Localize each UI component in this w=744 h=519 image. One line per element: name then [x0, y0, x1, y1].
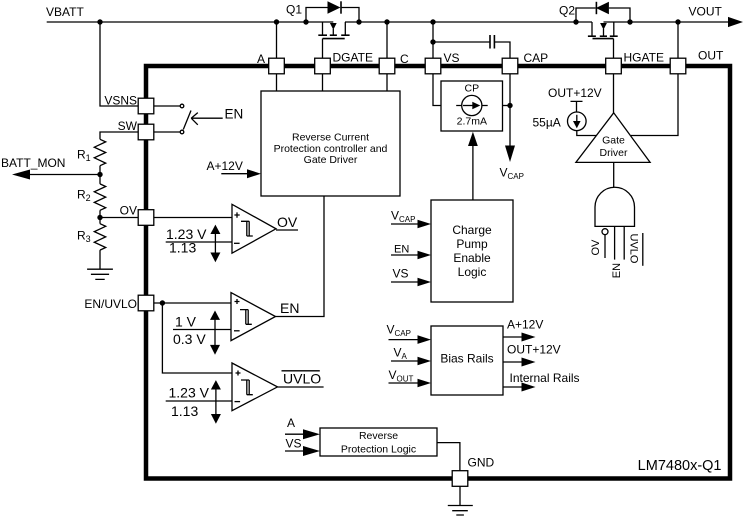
wire: top rail middle segment — [345, 21, 592, 23]
svg-text:A+12V: A+12V — [207, 159, 243, 173]
svg-text:VCAP: VCAP — [387, 323, 411, 339]
svg-text:A: A — [287, 416, 295, 430]
pin HGATE — [606, 58, 622, 74]
svg-text:1.23 V: 1.23 V — [169, 385, 210, 401]
wire: VA into Bias Rails — [391, 360, 419, 362]
svg-text:1.13: 1.13 — [169, 240, 196, 256]
pin GND — [452, 471, 468, 487]
pin A — [269, 58, 285, 74]
wire: UVLO comparator minus input — [166, 400, 232, 402]
svg-text:Driver: Driver — [600, 147, 629, 159]
wire: top rail right segment to VOUT — [604, 21, 730, 23]
svg-text:Logic: Logic — [458, 265, 487, 279]
wire: A+12V out of Bias Rails — [503, 336, 523, 338]
resistor R1 — [94, 139, 105, 165]
wire: EN comparator minus input — [173, 329, 231, 331]
current source 55uA circle — [568, 112, 587, 131]
wire: gate driver to AND gate — [613, 162, 615, 187]
svg-text:A+12V: A+12V — [507, 318, 543, 332]
transistor Q2 drain contact bar — [610, 35, 618, 37]
transistor Q1 source contact bar — [318, 34, 327, 36]
wire: C pin into RCP block — [386, 74, 388, 92]
wire: capacitor branch from VS — [433, 41, 490, 43]
wire: OV input to AND gate — [604, 235, 606, 258]
transistor Q1 drain stub — [344, 22, 346, 35]
comparator EN minus sign — [234, 330, 240, 332]
svg-text:55µA: 55µA — [533, 115, 561, 129]
transistor Q1 body diode loop — [306, 8, 359, 23]
wire: HGATE pin to gate driver — [613, 74, 615, 113]
wire: VS pin branch from rail — [432, 22, 434, 59]
wire: capacitor to CAP pin — [494, 42, 510, 59]
wire: CAP pin down to VCAP arrow — [509, 74, 511, 147]
wire: VOUT into Bias Rails — [389, 382, 419, 384]
svg-text:VS: VS — [393, 267, 409, 281]
junction: EN/UVLO node — [160, 300, 165, 305]
svg-text:VS: VS — [286, 437, 302, 451]
wire: charge pump enable to CP block arrow — [472, 145, 474, 200]
threshold up arrow OV — [214, 234, 216, 243]
resistor R3 — [94, 224, 105, 250]
transistor Q1 gate bar — [323, 38, 345, 40]
transistor Q2 drain stub — [613, 22, 615, 36]
svg-text:Reverse: Reverse — [359, 430, 398, 442]
wire: Q2 gate lead to HGATE — [613, 39, 615, 59]
transistor Q2 source stub — [591, 22, 593, 36]
wire: R1 to R2 — [99, 166, 101, 184]
wire: Internal Rails out of Bias Rails — [503, 386, 523, 388]
current source CP circle — [462, 95, 482, 115]
transistor Q2 middle contact bar — [600, 35, 607, 37]
wire: VSNS pin to switch — [154, 105, 181, 107]
comparator UVLO minus sign — [235, 401, 241, 403]
svg-text:Internal Rails: Internal Rails — [510, 371, 580, 385]
ground symbol — [448, 506, 473, 516]
svg-text:2.7mA: 2.7mA — [457, 115, 487, 127]
transistor Q2 body diode cathode bar — [595, 2, 597, 14]
VCAP down arrowhead — [505, 146, 515, 163]
comparator OV minus sign — [234, 242, 240, 244]
pin EN/UVLO — [138, 295, 154, 311]
junction: BATT_MON tap — [97, 172, 102, 177]
pin OUT — [670, 58, 686, 74]
svg-text:EN: EN — [394, 244, 409, 256]
svg-text:EN: EN — [280, 300, 299, 316]
wire: EN input to AND gate — [614, 226, 616, 259]
wire: DGATE pin into RCP block — [322, 74, 324, 92]
power rail T-bar OUT+12V — [571, 101, 583, 112]
IC boundary box LM7480x-Q1 — [146, 66, 730, 479]
VOUT arrowhead — [728, 17, 743, 27]
svg-text:EN/UVLO: EN/UVLO — [84, 297, 137, 311]
svg-text:1 V: 1 V — [175, 314, 197, 330]
junction: OV tap — [97, 215, 102, 220]
wire: EN/UVLO pin to EN comparator — [154, 302, 232, 304]
transistor Q1 drain contact bar — [341, 34, 349, 36]
svg-text:VBATT: VBATT — [46, 5, 84, 19]
comparator UVLO triangle — [232, 363, 278, 411]
transistor Q1 middle contact bar — [330, 34, 337, 36]
transistor Q2 body diode triangle — [596, 2, 609, 14]
svg-text:CAP: CAP — [524, 51, 549, 65]
switch blade — [183, 111, 191, 130]
wire: A into RPL — [285, 433, 304, 435]
EN control open arrow — [191, 113, 223, 125]
svg-text:DGATE: DGATE — [333, 51, 373, 65]
svg-text:VCAP: VCAP — [391, 209, 415, 225]
wire: BATT_MON tap — [29, 174, 100, 176]
svg-text:OV: OV — [120, 204, 137, 218]
svg-text:LM7480x-Q1: LM7480x-Q1 — [638, 458, 722, 474]
AND gate OV inverted input bubble — [602, 229, 608, 235]
AND gate — [595, 187, 635, 226]
comparator EN triangle — [231, 293, 276, 341]
svg-text:CP: CP — [465, 82, 480, 94]
wire: OUT pin branch from rail — [677, 22, 679, 59]
wire: CP block to CAP line — [503, 105, 511, 107]
svg-text:A: A — [257, 52, 265, 66]
svg-text:VS: VS — [444, 51, 460, 65]
wire: VS into RPL — [285, 450, 304, 452]
threshold down arrow EN — [214, 330, 216, 346]
block: Reverse Protection Logic — [320, 428, 437, 456]
threshold up arrow UVLO — [215, 389, 217, 401]
wire: OV comparator minus input — [166, 241, 232, 243]
svg-text:Bias Rails: Bias Rails — [440, 351, 493, 365]
transistor Q2 source contact bar — [588, 35, 596, 37]
resistor R2 — [94, 184, 105, 210]
pin SW — [138, 124, 154, 140]
svg-text:Q1: Q1 — [286, 3, 302, 17]
svg-text:Charge: Charge — [452, 223, 492, 237]
switch terminal circle lower — [180, 130, 184, 134]
wire: OUT+12V out of Bias Rails — [503, 361, 523, 363]
svg-text:R3: R3 — [77, 229, 91, 245]
comparator EN hysteresis glyph — [240, 310, 252, 325]
pin OV — [138, 210, 154, 226]
svg-text:VSNS: VSNS — [104, 94, 137, 108]
transistor Q1 body arrow — [330, 23, 337, 30]
wire: OUT pin feedback to gate driver — [631, 74, 678, 136]
svg-text:BATT_MON: BATT_MON — [1, 156, 65, 170]
svg-text:Gate: Gate — [602, 135, 625, 147]
threshold down arrow OV — [214, 242, 216, 253]
svg-text:0.3 V: 0.3 V — [173, 331, 206, 347]
svg-text:C: C — [400, 52, 409, 66]
capacitor VS-CAP right plate — [493, 35, 495, 49]
svg-text:UVLO: UVLO — [627, 234, 639, 264]
transistor Q1 body diode cathode bar — [340, 1, 342, 13]
svg-text:OUT: OUT — [698, 49, 724, 63]
svg-text:OUT+12V: OUT+12V — [507, 343, 561, 357]
wire: VSNS branch from rail — [100, 22, 139, 106]
svg-text:VA: VA — [394, 346, 408, 362]
wire: EN comparator output to RCP block — [276, 196, 325, 317]
comparator UVLO plus sign — [236, 371, 241, 376]
wire: VCAP into Bias Rails — [389, 339, 419, 341]
wire: VS pin to CP block — [433, 74, 441, 106]
wire: OV pin to comparator — [100, 217, 139, 219]
pin C — [379, 58, 395, 74]
wire: R3 to ground — [99, 250, 101, 269]
svg-text:Protection Logic: Protection Logic — [341, 444, 416, 456]
ground under R3 — [87, 269, 113, 279]
wire: A pin into RCP block — [276, 74, 278, 92]
svg-text:R1: R1 — [77, 148, 91, 164]
wire: VCAP into CPEL — [391, 223, 419, 225]
wire: VS into CPEL — [391, 281, 419, 283]
comparator OV plus sign — [234, 212, 239, 217]
wire: R2 to R3 — [99, 210, 101, 223]
transistor Q1 body diode triangle — [328, 1, 341, 13]
junction dots on VBATT rail — [97, 19, 102, 24]
svg-text:Pump: Pump — [456, 237, 488, 251]
wire: EN into CPEL — [391, 254, 419, 256]
wire: RPL to GND pin — [437, 443, 460, 471]
pin VSNS — [138, 98, 154, 114]
svg-text:R2: R2 — [77, 188, 91, 204]
svg-text:Q2: Q2 — [559, 4, 575, 18]
wire: SW pin to resistor divider — [100, 132, 139, 139]
comparator OV hysteresis glyph — [241, 221, 253, 236]
svg-text:OV: OV — [590, 239, 602, 256]
wire: 55uA source into gate driver — [577, 131, 597, 136]
block: Charge Pump Enable Logic — [431, 200, 513, 302]
capacitor VS-CAP left plate — [489, 35, 491, 49]
pin CAP — [502, 58, 518, 74]
wire: C pin branch from rail — [386, 22, 388, 59]
svg-text:UVLO: UVLO — [283, 371, 321, 387]
transistor Q2 body arrow — [600, 23, 607, 30]
switch terminal circle upper — [180, 104, 184, 108]
transistor Q1 source stub — [322, 22, 324, 35]
wire: UVLO input to AND gate — [623, 226, 625, 259]
transistor Q2 body diode loop — [576, 8, 630, 22]
threshold down arrow UVLO — [215, 401, 217, 415]
svg-text:1.13: 1.13 — [171, 403, 198, 419]
svg-text:OV: OV — [277, 214, 298, 230]
svg-text:HGATE: HGATE — [624, 51, 664, 65]
comparator OV triangle — [232, 204, 276, 253]
svg-text:VOUT: VOUT — [389, 368, 414, 384]
svg-text:GND: GND — [468, 456, 495, 470]
svg-text:OUT+12V: OUT+12V — [548, 86, 602, 100]
BATT_MON arrowhead — [12, 170, 30, 180]
block: Bias Rails — [431, 326, 503, 395]
svg-text:EN: EN — [611, 263, 623, 278]
pin DGATE — [315, 58, 331, 74]
junction: VS capacitor tap — [430, 39, 435, 44]
wire: VBATT top rail left segment — [47, 21, 334, 23]
svg-text:Gate Driver: Gate Driver — [304, 154, 358, 166]
svg-text:Protection controller and: Protection controller and — [274, 143, 388, 155]
threshold up arrow EN — [214, 319, 216, 329]
wire: SW pin to switch — [154, 131, 181, 133]
comparator UVLO hysteresis glyph — [241, 380, 253, 395]
block: Reverse Current Protection controller and Gate Driver — [261, 91, 400, 196]
wire: GND pin to ground — [459, 486, 461, 506]
wire: Q1 gate lead to DGATE — [322, 39, 324, 59]
wire: EN/UVLO node to UVLO comparator — [162, 303, 232, 373]
pin VS — [425, 58, 441, 74]
transistor Q2 gate bar — [593, 38, 614, 40]
wire: UVLO comparator output — [278, 386, 324, 388]
svg-text:Enable: Enable — [453, 251, 491, 265]
comparator EN plus sign — [235, 299, 240, 304]
wire: A+12V into RCP block — [221, 173, 248, 175]
wire: A pin branch from rail — [276, 22, 278, 59]
svg-text:Reverse Current: Reverse Current — [292, 132, 369, 144]
svg-text:VCAP: VCAP — [500, 166, 524, 182]
wire: OV comparator output — [276, 229, 298, 231]
svg-text:EN: EN — [225, 107, 244, 122]
svg-text:VOUT: VOUT — [689, 5, 723, 19]
gate driver triangle — [576, 113, 650, 163]
junction: CAP node at CP — [507, 103, 512, 108]
block: CP charge pump — [441, 81, 503, 131]
svg-text:SW: SW — [118, 119, 138, 133]
